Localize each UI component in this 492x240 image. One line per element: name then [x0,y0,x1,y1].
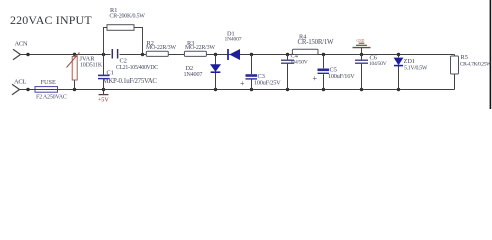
svg-text:1N4007: 1N4007 [225,37,242,43]
svg-text:JVAR: JVAR [80,56,96,63]
diode D2 [184,55,222,90]
node dots top rail [26,53,400,57]
svg-text:5.1V/0.5W: 5.1V/0.5W [404,66,428,72]
power port +5V [98,90,110,104]
connector ACL [12,84,20,95]
varistor JVAR [67,53,103,90]
svg-text:FUSE: FUSE [41,79,57,86]
capacitor C6 [355,54,387,89]
ground [353,39,371,55]
resistor R1 [104,7,146,55]
svg-text:CR-200K/0.5W: CR-200K/0.5W [110,14,146,20]
resistor R5 [451,54,492,90]
svg-text:104/50V: 104/50V [290,59,308,65]
svg-text:C2: C2 [120,58,127,65]
svg-text:GND: GND [357,39,365,43]
svg-text:MO-22R/3W: MO-22R/3W [146,45,176,51]
svg-text:104/50V: 104/50V [369,61,387,67]
wire top rail [21,54,455,56]
svg-text:R5: R5 [461,54,468,61]
zener ZD1 [394,55,428,90]
svg-text:MKP-0.1uF/275VAC: MKP-0.1uF/275VAC [103,78,158,85]
capacitor C3 [240,55,281,90]
resistor R4 [292,33,334,54]
svg-text:ZD1: ZD1 [404,58,416,65]
connector ACN [13,49,21,60]
svg-text:ACL: ACL [14,79,26,86]
capacitor C2 [112,49,158,71]
svg-text:MO-22R/3W: MO-22R/3W [185,45,215,51]
capacitor C5 [313,55,356,90]
svg-text:+: + [240,79,245,88]
diode D1 [225,31,242,61]
svg-text:+5V: +5V [98,96,110,103]
fuse F2 [35,79,67,100]
svg-text:100uF/16V: 100uF/16V [328,73,355,80]
wire bottom rail [20,89,455,91]
resistor R3 [184,40,215,56]
capacitor C4 [281,53,308,90]
resistor R2 [146,40,176,56]
svg-text:100uF/25V: 100uF/25V [254,80,281,87]
svg-text:10D511K: 10D511K [80,63,103,69]
capacitor C1 [98,55,157,90]
svg-text:ACN: ACN [15,41,28,48]
svg-text:C1: C1 [107,70,114,77]
border right edge [490,0,492,109]
svg-text:F2 A250VAC: F2 A250VAC [36,94,67,100]
svg-text:1N4007: 1N4007 [184,71,203,78]
svg-text:CR-150R/1W: CR-150R/1W [298,39,335,46]
node dots bottom rail [26,88,400,91]
svg-text:220VAC INPUT: 220VAC INPUT [10,13,92,27]
svg-text:CL21-105/400VDC: CL21-105/400VDC [116,65,158,71]
svg-text:CR-4.7K/0.25W: CR-4.7K/0.25W [460,61,492,67]
svg-text:+: + [313,74,318,83]
